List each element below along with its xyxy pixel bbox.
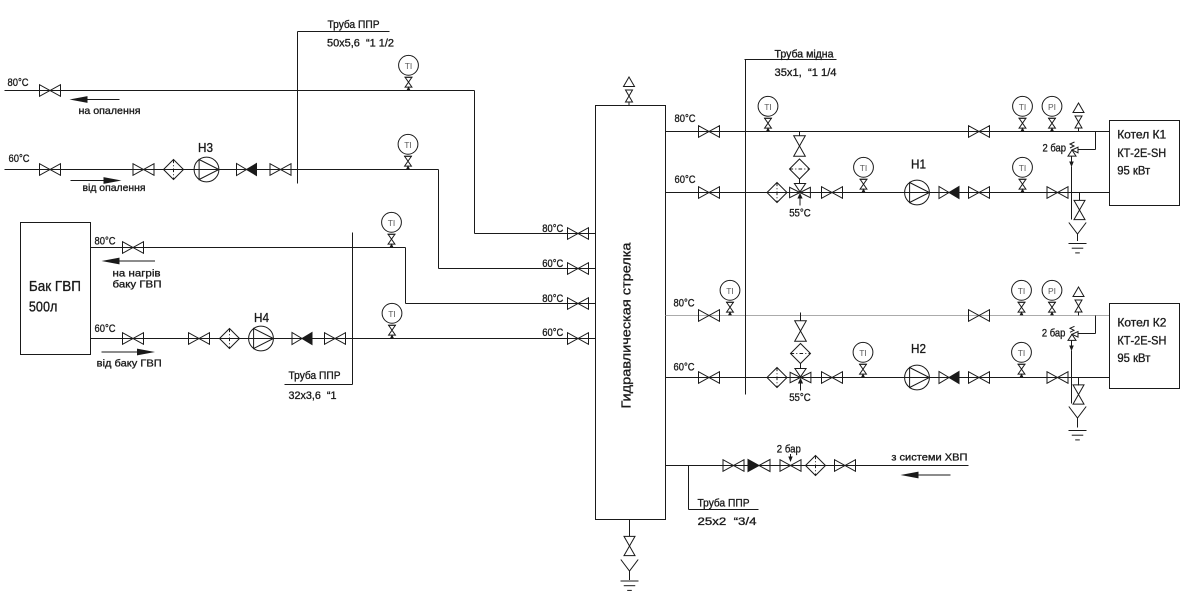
strainer F4 K1 branch [790, 159, 810, 179]
K1 mixing branch pipe [799, 132, 801, 136]
svg-text:55°C: 55°C [789, 392, 811, 404]
svg-text:від опалення: від опалення [83, 182, 146, 194]
thermometer TI K2 supply left [720, 280, 740, 315]
valve V10 sep left 2 [568, 263, 589, 275]
safety valve branch K1 [1095, 132, 1097, 150]
svg-text:80°C: 80°C [542, 293, 563, 305]
svg-text:32х3,6 “1: 32х3,6 “1 [289, 390, 337, 402]
svg-text:Труба ППР: Труба ППР [698, 498, 750, 510]
callout line Truba PPR 32x3.6 [285, 384, 353, 386]
valve V4 heating return [270, 164, 291, 176]
valve V20 K2 supply [699, 310, 720, 322]
hydraulic separator vessel [596, 106, 666, 520]
valve V5 tank supply [123, 242, 144, 254]
valve V12 sep left 4 [568, 333, 589, 345]
safety discharge K2 [1071, 341, 1073, 346]
three-way mixing valve K2 [790, 369, 811, 391]
valve V24 K2 return [822, 372, 843, 384]
separator drain pipe [629, 520, 631, 537]
air vent K2 [1073, 287, 1084, 316]
strainer F6 K2 branch [791, 344, 811, 364]
K1 drain valve [1074, 200, 1085, 219]
svg-text:2 бар: 2 бар [1042, 328, 1066, 340]
ground under separator drain [621, 581, 639, 590]
three-way mixing valve K1 [790, 184, 811, 206]
svg-text:25х2 “3/4: 25х2 “3/4 [698, 516, 757, 528]
check valve CV3 K1 [939, 187, 959, 199]
svg-text:Н3: Н3 [198, 140, 213, 155]
svg-text:80°C: 80°C [674, 298, 695, 310]
svg-text:500л: 500л [29, 299, 58, 316]
valve V23 K2 branch [795, 321, 807, 341]
thermometer TI K1 return left [854, 157, 874, 192]
safety valve 2bar K1 [1068, 142, 1078, 156]
separator drain funnel [621, 560, 638, 572]
svg-text:2 бар: 2 бар [1043, 143, 1067, 155]
pressure reducer 2bar cold water [780, 460, 801, 472]
pump H2 [905, 365, 930, 390]
pressure gauge PI K2 [1042, 280, 1062, 315]
check valve CV2 tank return [292, 333, 312, 345]
thermometer TI tank return [382, 303, 402, 338]
svg-text:Труба мідна: Труба мідна [775, 49, 835, 61]
safety discharge K1 [1071, 157, 1073, 162]
svg-text:на опалення: на опалення [79, 105, 141, 117]
svg-text:Н4: Н4 [254, 310, 269, 325]
flow arrow to tank heating [118, 260, 156, 262]
air vent K1 [1073, 103, 1084, 132]
valve V17 K1 return [822, 187, 843, 199]
thermometer TI K2 return left [853, 342, 873, 377]
wire 60C from K1 [666, 192, 1110, 194]
air vent on separator top [624, 77, 635, 106]
svg-text:Бак ГВП: Бак ГВП [29, 278, 81, 295]
check valve CV5 cold water [748, 460, 770, 472]
K1 drain funnel [1069, 223, 1086, 235]
svg-text:60°C: 60°C [674, 362, 695, 374]
svg-text:60°C: 60°C [542, 258, 563, 270]
valve V18 K1 return [969, 187, 990, 199]
svg-text:80°C: 80°C [675, 113, 696, 125]
check valve CV4 K2 [939, 372, 959, 384]
svg-text:60°C: 60°C [542, 327, 563, 339]
K2 mixing branch pipe [800, 313, 802, 322]
pump H1 [905, 180, 930, 205]
pressure gauge PI K1 [1042, 96, 1062, 131]
ground under K2 drain [1069, 431, 1087, 440]
wire 60C heating return run [5, 169, 439, 171]
svg-text:60°C: 60°C [675, 174, 696, 186]
strainer F5 K2 [767, 368, 787, 388]
strainer F3 K1 [767, 183, 787, 203]
valve V9 sep left 1 [568, 228, 589, 240]
flow arrow to heating [86, 99, 120, 101]
wire 80C to K2 (copper, gray) [666, 315, 1110, 317]
boiler K1 box [1110, 121, 1180, 206]
thermometer TI tank supply [382, 212, 402, 247]
boiler K2 box [1110, 304, 1180, 389]
valve V26 K2 return [1047, 372, 1068, 384]
svg-text:50х5,6 “1 1/2: 50х5,6 “1 1/2 [327, 38, 394, 50]
svg-text:80°C: 80°C [8, 77, 29, 89]
thermometer TI K2 supply right [1012, 280, 1032, 315]
ground under K1 drain [1069, 244, 1087, 253]
svg-text:Котел К1: Котел К1 [1117, 128, 1166, 142]
safety valve branch K2 [1095, 316, 1097, 334]
valve V25 K2 return [969, 372, 990, 384]
svg-text:60°C: 60°C [9, 153, 30, 165]
K2 drain funnel [1069, 407, 1086, 419]
thermometer TI K2 return right [1012, 342, 1032, 377]
valve V6 tank return [123, 333, 144, 345]
K2 drain valve [1073, 385, 1084, 404]
strainer F2 tank return [220, 329, 240, 349]
valve V14 K1 supply [969, 126, 990, 138]
svg-text:Н2: Н2 [911, 341, 926, 356]
svg-text:2 бар: 2 бар [777, 444, 801, 456]
svg-text:Гидравлическая стрелка: Гидравлическая стрелка [619, 242, 634, 409]
K2 drain pipe [1078, 378, 1080, 386]
callout line Truba midna 35x1 [745, 59, 837, 61]
strainer F7 cold water [806, 456, 826, 476]
valve V11 sep left 3 [568, 298, 589, 310]
svg-text:80°C: 80°C [542, 223, 563, 235]
safety valve 2bar K2 [1068, 326, 1078, 340]
valve V8 tank return [325, 333, 346, 345]
svg-text:80°C: 80°C [95, 236, 116, 248]
wire 60C from K2 [666, 377, 1110, 379]
wire 80C tank heat-up run [91, 247, 406, 249]
valve V3 heating return [133, 164, 154, 176]
wire cold water make-up [666, 465, 969, 467]
thermometer TI heating supply [399, 55, 419, 90]
svg-text:35х1, “1 1/4: 35х1, “1 1/4 [775, 67, 837, 79]
svg-text:60°C: 60°C [95, 323, 116, 335]
flow arrow cold water in [917, 474, 951, 476]
svg-text:Труба ППР: Труба ППР [328, 19, 380, 31]
tank Bak GVP 500L [21, 223, 91, 355]
wire 80C to K1 [666, 131, 1110, 133]
svg-text:95 кВт: 95 кВт [1117, 351, 1150, 365]
svg-text:Н1: Н1 [911, 157, 926, 172]
K1 drain pipe [1079, 193, 1081, 201]
svg-text:на нагрів: на нагрів [113, 268, 161, 280]
valve V7 tank return [189, 333, 210, 345]
callout line Truba PPR 25x2 [689, 509, 759, 511]
separator drain valve [624, 536, 635, 555]
valve V16 K1 branch [794, 136, 806, 156]
svg-text:баку ГВП: баку ГВП [113, 279, 162, 291]
wire 80C heating supply run [5, 90, 475, 92]
valve V22 K2 return [699, 372, 720, 384]
wire 60C tank return run [91, 338, 596, 340]
pump H3 [194, 157, 219, 182]
svg-text:55°C: 55°C [789, 208, 811, 220]
flow arrow from tank [102, 351, 140, 353]
thermometer TI K1 supply left [758, 96, 778, 131]
valve V2 heating return [40, 164, 61, 176]
arrow 2 bar setpoint [790, 454, 792, 457]
valve V19 K1 return [1047, 187, 1068, 199]
callout line Truba PPR 50x5.6 [298, 31, 390, 33]
valve V15 K1 return [699, 187, 720, 199]
thermometer TI heating return [398, 134, 418, 169]
valve V1 heating supply [40, 85, 61, 97]
valve V21 K2 supply [969, 310, 990, 322]
svg-text:КТ-2Е-SH: КТ-2Е-SH [1117, 333, 1166, 347]
thermometer TI K1 return right [1013, 157, 1033, 192]
svg-text:з системи ХВП: з системи ХВП [891, 452, 967, 464]
flow arrow from heating [71, 180, 106, 182]
svg-text:95 кВт: 95 кВт [1117, 163, 1150, 177]
valve V13 K1 supply [699, 126, 720, 138]
check valve CV1 heating return [237, 164, 257, 176]
strainer F1 heating return [164, 160, 184, 180]
svg-text:Труба ППР: Труба ППР [289, 370, 341, 382]
svg-text:Котел К2: Котел К2 [1117, 315, 1166, 329]
valve V27 cold water [723, 460, 744, 472]
pump H4 [249, 326, 274, 351]
thermometer TI K1 supply right [1013, 96, 1033, 131]
svg-text:від баку ГВП: від баку ГВП [97, 358, 162, 370]
svg-text:КТ-2Е-SH: КТ-2Е-SH [1117, 146, 1166, 160]
valve V28 cold water [835, 460, 856, 472]
